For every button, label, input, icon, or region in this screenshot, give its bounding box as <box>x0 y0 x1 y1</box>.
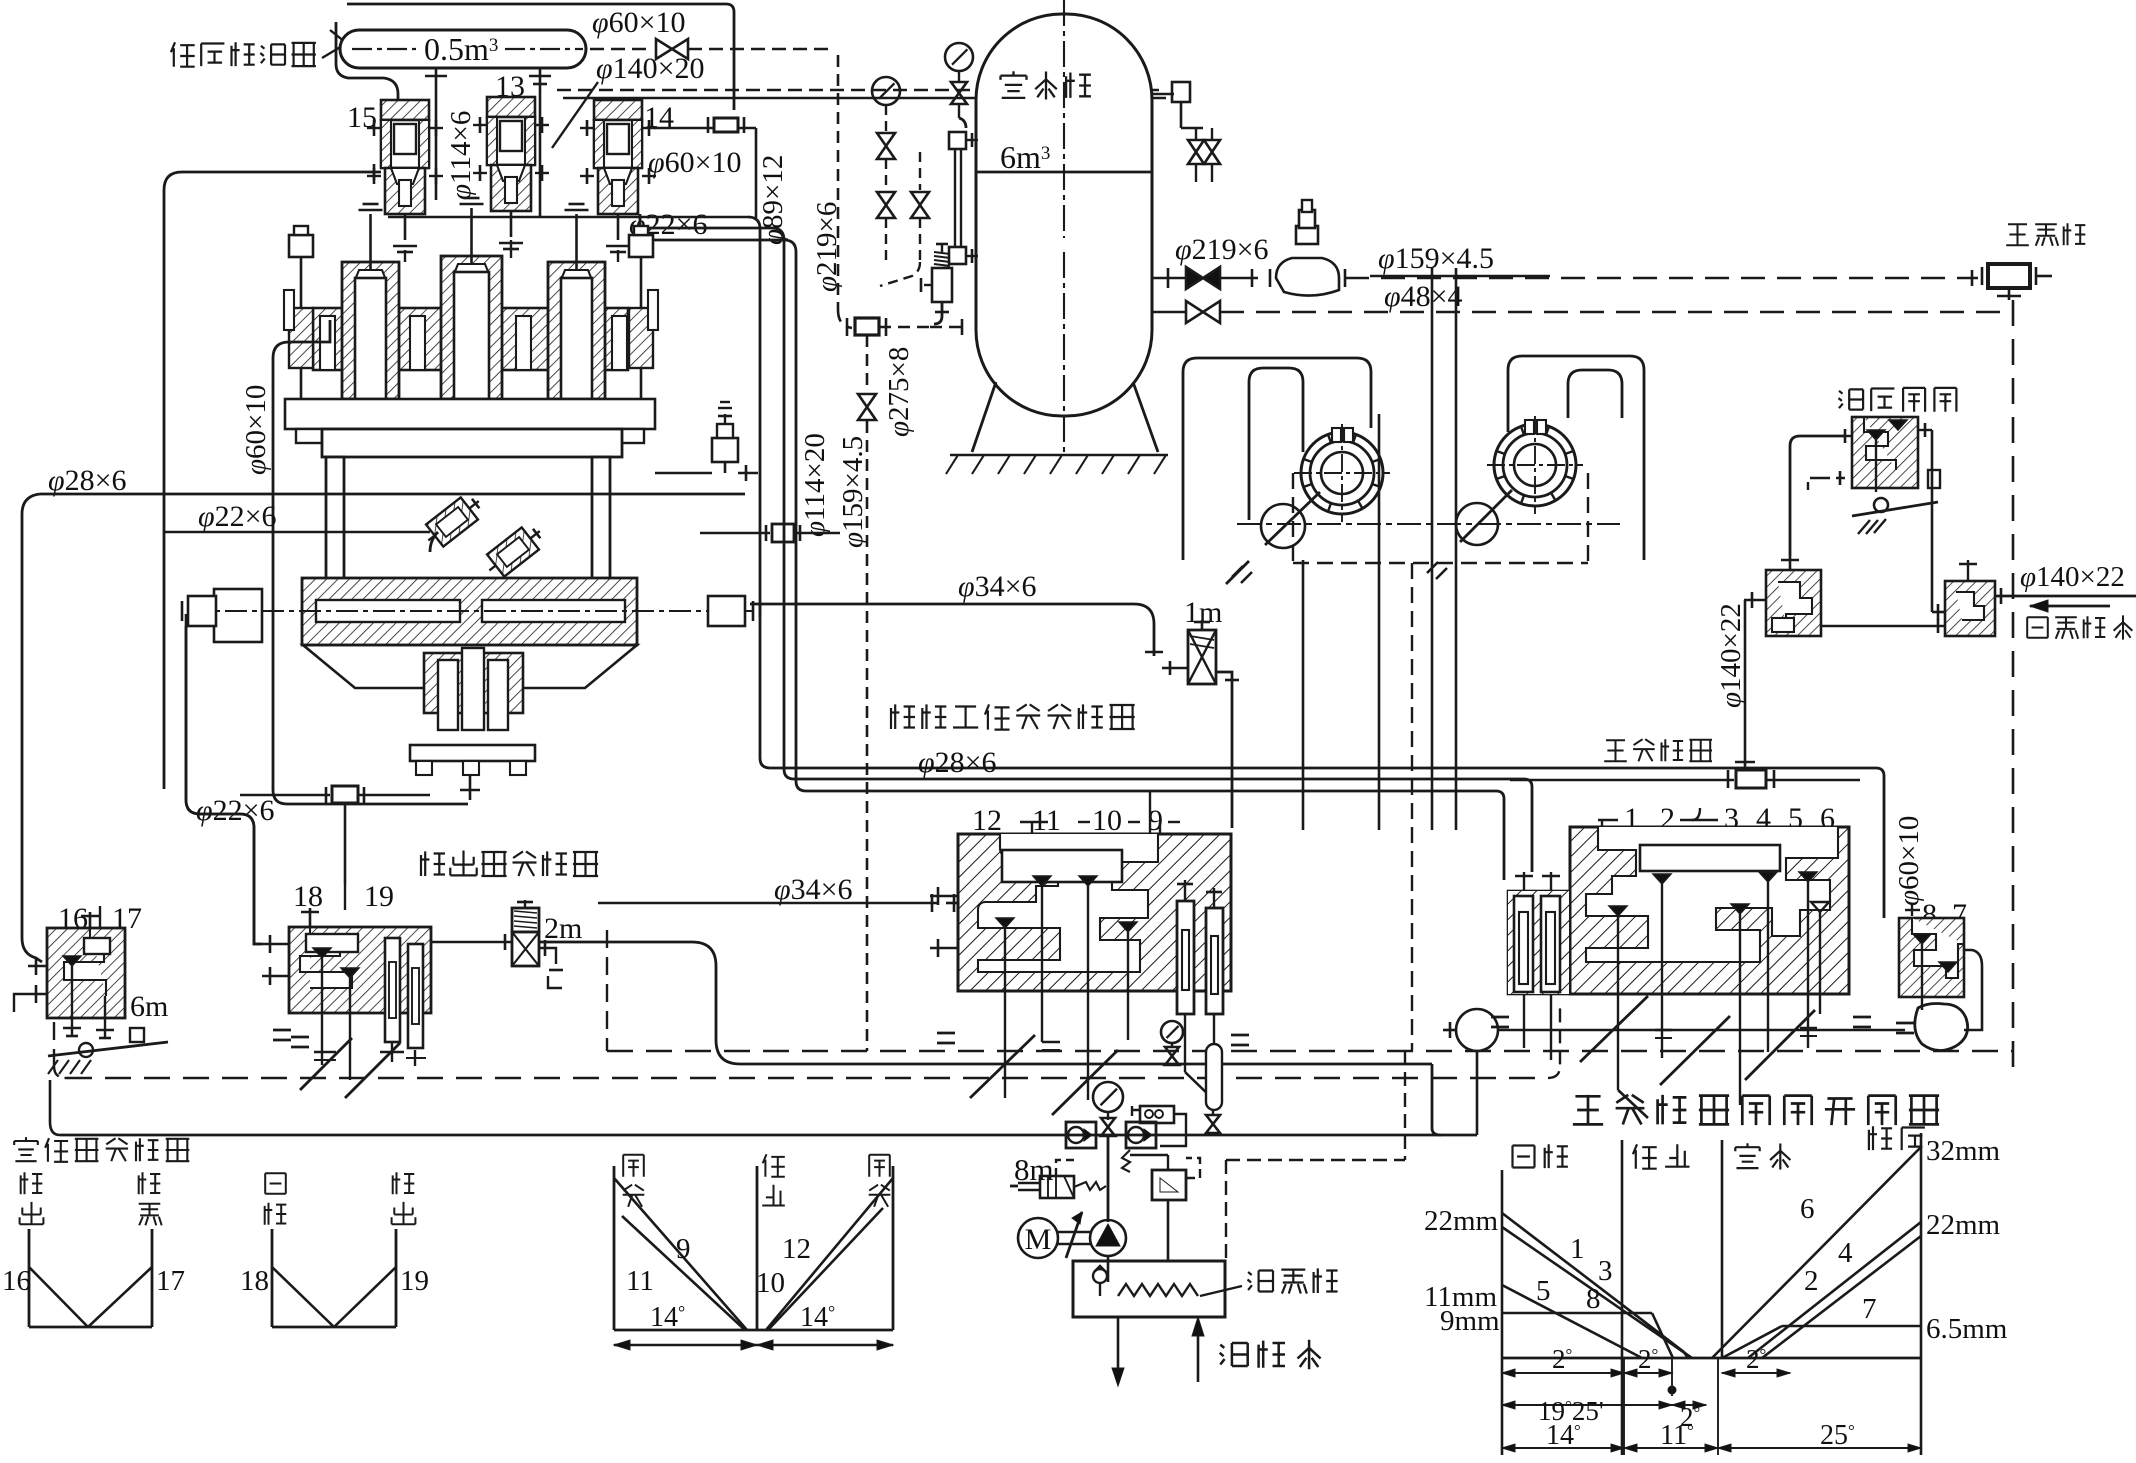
graph axes <box>1502 1133 1921 1455</box>
dimension 14 deg left <box>614 1302 757 1350</box>
pipe φ60×10 press left loop <box>273 320 468 804</box>
pilot valve 15 <box>347 100 443 252</box>
svg-text:22mm: 22mm <box>1926 1209 2001 1241</box>
pipe φ159×4.5 dashed down <box>858 335 876 1051</box>
label φ28×6 left <box>48 464 127 497</box>
pipe 2m to return <box>539 942 1477 1135</box>
graph mm labels <box>1424 1135 2008 1345</box>
graph falling curves 5 8 <box>1502 1275 1673 1358</box>
svg-text:φ60×10: φ60×10 <box>648 146 742 179</box>
centerline wheels <box>1237 523 1620 525</box>
label 移动工作台分配器 <box>891 704 1135 729</box>
mobile distributor plungers <box>1177 880 1223 1014</box>
label φ60×10 vertical right <box>1893 816 1925 906</box>
label φ60×10 top <box>592 6 686 39</box>
valve 1m <box>1162 620 1239 828</box>
inlet from pump station arrow <box>1995 588 2136 612</box>
label 8m <box>1014 1152 1054 1187</box>
label 6m <box>130 990 168 1023</box>
svg-text:φ28×6: φ28×6 <box>48 464 127 497</box>
labels 1-6 <box>1598 802 1835 835</box>
relief valve right of press <box>655 402 758 481</box>
pipe loops above wheels <box>1183 356 1644 560</box>
dashed pump enclosure <box>1226 1051 1405 1261</box>
label φ60×10 press left <box>240 385 272 475</box>
svg-text:φ34×6: φ34×6 <box>958 570 1037 603</box>
wire valve14 to fitting <box>654 117 756 218</box>
press outlet fitting right <box>700 524 840 542</box>
right boundary dashed <box>2012 300 2015 1078</box>
label φ114×20 vertical <box>799 433 831 537</box>
pipe φ60×10 drop to valve block <box>1876 768 1884 918</box>
svg-text:2m: 2m <box>544 912 582 945</box>
svg-text:6.5mm: 6.5mm <box>1926 1313 2008 1345</box>
ejector distributor drains <box>273 1030 426 1098</box>
graph dim row A <box>1502 1344 1790 1455</box>
ejector distributor ports <box>262 908 319 985</box>
svg-text:4: 4 <box>1838 1237 1853 1269</box>
svg-text:φ60×10: φ60×10 <box>240 385 272 475</box>
pipe φ22×6 mid-left <box>164 531 430 534</box>
label 定位器分配器 <box>14 1137 189 1162</box>
svg-text:φ34×6: φ34×6 <box>774 873 853 906</box>
svg-text:11: 11 <box>1032 804 1061 837</box>
label 去泵站 <box>2006 223 2085 246</box>
graph zone labels <box>1513 1126 1925 1169</box>
svg-text:32mm: 32mm <box>1926 1135 2001 1167</box>
svg-text:16: 16 <box>2 1265 31 1297</box>
label 主分配器阀门开启图 <box>1573 1095 1939 1125</box>
svg-text:19: 19 <box>400 1265 429 1297</box>
dashed boundary D2 left <box>54 1008 1560 1078</box>
label 液压闸阀 <box>1839 388 1957 412</box>
main distributor block <box>1570 827 1849 1105</box>
positioner ports <box>14 957 47 1012</box>
cam diagram worktable <box>614 1154 893 1330</box>
label φ140×20 <box>596 52 705 85</box>
label φ60×10 right of valve 14 <box>648 146 742 179</box>
relief valve <box>1122 1150 1200 1261</box>
tank solenoid drain <box>921 244 952 324</box>
press upper crosshead <box>313 198 628 399</box>
oil pump station tank <box>1073 1261 1225 1317</box>
pipe fitting on dashed main <box>847 318 966 336</box>
svg-text:φ159×4.5: φ159×4.5 <box>837 436 869 548</box>
mobile distributor drains <box>937 1014 1249 1115</box>
positioner drains tilted ground <box>48 1028 168 1074</box>
svg-text:7: 7 <box>1862 1293 1877 1325</box>
svg-text:φ140×20: φ140×20 <box>596 52 705 85</box>
wire pump main line <box>0 0 1 1</box>
accumulator capsule <box>1206 1044 1222 1135</box>
svg-text:φ22×6: φ22×6 <box>196 794 275 827</box>
water tank 充水罐 6m3 <box>976 0 1152 455</box>
press lower trapezoid <box>303 645 637 688</box>
svg-text:6m: 6m <box>130 990 168 1023</box>
press moving beam <box>182 578 760 645</box>
pipe φ28×6 left <box>22 494 745 962</box>
check block left <box>1744 556 1821 636</box>
buffer tank 0.5m3 <box>340 30 586 68</box>
press columns <box>326 457 610 585</box>
main distributor inlet fitting <box>1510 600 1860 788</box>
label 主分配器 <box>1604 739 1712 761</box>
pipe drops to distributors <box>1303 268 1456 830</box>
drain pot blob <box>1915 950 1982 1051</box>
label φ159×4.5 vertical <box>837 436 869 548</box>
svg-text:φ60×10: φ60×10 <box>592 6 686 39</box>
svg-text:φ275×8: φ275×8 <box>883 347 915 437</box>
svg-text:φ60×10: φ60×10 <box>1893 816 1925 906</box>
svg-text:9mm: 9mm <box>1440 1305 1500 1337</box>
gate valve piping <box>1790 430 1932 612</box>
control wheel right <box>1487 416 1583 514</box>
svg-text:19: 19 <box>364 880 394 913</box>
graph dim row B <box>1502 1396 1706 1432</box>
cam diagram ejector <box>240 1172 429 1327</box>
mobile worktable distributor block <box>958 834 1231 1100</box>
hand lever left <box>1226 492 1320 584</box>
return line to pump suction <box>50 1080 1441 1135</box>
wire to φ89 risers <box>630 214 796 781</box>
pressure gauge pump <box>1093 1082 1123 1222</box>
svg-text:φ89×12: φ89×12 <box>757 155 789 245</box>
twin angle valves right of tank <box>1188 128 1220 182</box>
tank level gauge <box>949 132 978 264</box>
tank return line with circle <box>1443 1009 1905 1135</box>
press top beam <box>285 399 655 457</box>
pressure switch <box>1132 1106 1186 1146</box>
solenoid 8m <box>1010 1160 1106 1198</box>
svg-text:11: 11 <box>626 1265 654 1297</box>
label φ22×6 upper <box>629 208 708 241</box>
svg-text:φ159×4.5: φ159×4.5 <box>1378 242 1494 275</box>
wire φ22×6 header <box>388 217 760 758</box>
svg-text:18: 18 <box>293 880 323 913</box>
tilted pilot valves in press <box>420 490 549 581</box>
svg-text:φ114×20: φ114×20 <box>799 433 831 537</box>
svg-text:φ140×22: φ140×22 <box>2020 561 2125 593</box>
press rod left end line <box>186 626 262 944</box>
press side rods <box>284 226 658 399</box>
label φ114×6 vertical <box>445 111 477 200</box>
label 顶出器分配器 <box>421 851 598 877</box>
pump <box>1066 1212 1126 1282</box>
wire capsule drops <box>425 68 551 217</box>
graph curve 7 <box>1722 1293 1921 1358</box>
wire left loop to valve15 <box>164 164 381 789</box>
graph rising curve 6 <box>1712 1147 1921 1358</box>
press ejector cylinders <box>410 648 535 800</box>
svg-text:φ140×22: φ140×22 <box>1715 603 1747 708</box>
svg-text:12: 12 <box>782 1233 811 1265</box>
check block right <box>1932 560 1995 636</box>
pipe φ140×20 dashed <box>552 82 1166 148</box>
label 自泵站来 <box>2027 615 2132 639</box>
main water valves φ219×6 <box>1152 267 2013 323</box>
label φ22×6 lower <box>196 794 275 827</box>
labels 12 11 10 9 <box>972 804 1180 837</box>
svg-text:2: 2 <box>1804 1265 1819 1297</box>
ejector distributor block <box>289 927 431 1080</box>
dashed box wheels <box>1293 473 1588 1051</box>
unloading valve block 7 <box>1899 918 1964 1010</box>
main distributor drains <box>1491 996 1914 1118</box>
main distributor pilot cylinders <box>1508 872 1569 1060</box>
svg-text:18: 18 <box>240 1265 269 1297</box>
svg-text:φ28×6: φ28×6 <box>918 746 997 779</box>
label 6m3 <box>1000 139 1050 175</box>
svg-text:0.5m3: 0.5m3 <box>424 31 498 67</box>
tank right fitting <box>1152 82 1203 128</box>
label φ28×6 mid <box>918 746 997 779</box>
cooling water arrows <box>1112 1317 1204 1386</box>
label 冷却水 <box>1220 1340 1321 1370</box>
wire gate valve to check blocks <box>1821 619 1945 633</box>
svg-text:φ22×6: φ22×6 <box>198 500 277 533</box>
pipe loop around buffer tank <box>336 4 734 124</box>
label φ219×6 right <box>1175 233 1269 266</box>
svg-text:17: 17 <box>156 1265 185 1297</box>
label 充水罐 <box>1001 71 1091 99</box>
label φ89×12 vertical <box>757 155 789 245</box>
label φ159×4.5 main <box>1370 242 1550 276</box>
control wheel left <box>1294 424 1390 522</box>
dimension 14 deg right <box>757 1302 893 1350</box>
label 1m <box>1184 596 1222 629</box>
pipe φ34×6 from press <box>750 570 1163 656</box>
svg-text:φ48×4: φ48×4 <box>1384 280 1463 313</box>
graph dim row C <box>1502 1420 1921 1452</box>
svg-text:5: 5 <box>1536 1275 1551 1307</box>
label 16 17 <box>58 902 142 935</box>
pump station connector <box>1982 264 2052 300</box>
safety valve on main <box>1270 200 1345 296</box>
label φ219×6 vertical <box>811 202 843 292</box>
hydraulic gate valve <box>1845 417 1940 534</box>
positioner distributor block <box>47 912 125 1038</box>
cam diagram positioner <box>2 1172 185 1327</box>
second valve column φ275×8 <box>880 152 929 286</box>
svg-text:6: 6 <box>1800 1193 1815 1225</box>
mobile distributor left ports <box>930 887 958 957</box>
labels 18 19 <box>293 880 394 913</box>
svg-text:1: 1 <box>1570 1233 1585 1265</box>
label 2m <box>544 912 582 945</box>
dashed return boundary D1 <box>607 930 2013 1051</box>
label φ140×22 from pump <box>2020 561 2125 593</box>
tank legs and ground <box>946 382 1168 474</box>
pilot operated valve right <box>1126 1122 1156 1148</box>
graph falling curves 1 3 <box>1502 1213 1692 1358</box>
pilot operated valve left <box>1066 1122 1096 1148</box>
svg-text:9: 9 <box>676 1233 691 1265</box>
svg-text:12: 12 <box>972 804 1002 837</box>
labels 8 7 <box>1905 898 1967 931</box>
label 低压缓冲器 <box>171 30 370 67</box>
label φ275×8 vertical <box>883 347 915 437</box>
valve on φ60×10 line <box>590 39 830 59</box>
pipe fitting φ22×6 <box>240 786 430 884</box>
pipe to pump station dashed <box>1345 270 1978 286</box>
small gauge near mobile dist <box>1161 1021 1183 1065</box>
motor M <box>1018 1218 1092 1258</box>
label φ140×22 vertical <box>1715 603 1747 708</box>
svg-text:8: 8 <box>1586 1283 1601 1315</box>
pipe ejector to mobile dist <box>186 614 262 944</box>
pilot valve 13 <box>473 70 549 249</box>
label φ48×4 main <box>1376 280 1520 313</box>
pilot valve 14 <box>580 100 674 252</box>
pipe φ34×6 lower <box>598 873 958 912</box>
pipe φ219×6 dashed drop <box>838 55 852 328</box>
label 油泵站 <box>1200 1268 1338 1296</box>
label φ22×6 mid-left <box>198 500 277 533</box>
svg-text:10: 10 <box>1092 804 1122 837</box>
left pressure gauge on φ219×6 <box>872 77 900 262</box>
tank top gauge <box>945 43 973 128</box>
svg-text:M: M <box>1025 1223 1052 1256</box>
svg-text:φ219×6: φ219×6 <box>1175 233 1269 266</box>
hand lever right <box>1427 490 1512 579</box>
svg-text:10: 10 <box>756 1267 785 1299</box>
svg-text:22mm: 22mm <box>1424 1205 1499 1237</box>
svg-text:φ114×6: φ114×6 <box>445 111 477 200</box>
valve 2m <box>431 900 563 988</box>
graph rising curves 2 4 <box>1748 1222 1921 1358</box>
pipe header risers to distributors <box>760 758 1876 880</box>
